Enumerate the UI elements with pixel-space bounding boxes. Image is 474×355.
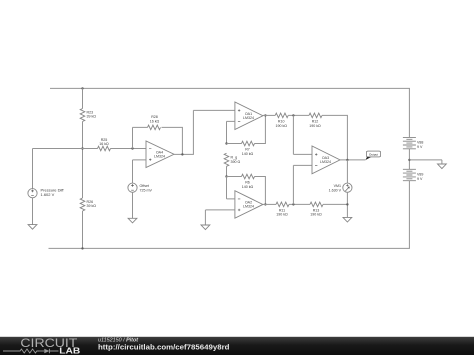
- resistor R13: [310, 202, 323, 217]
- svg-text:16 kΩ: 16 kΩ: [99, 142, 109, 146]
- svg-text:LAB: LAB: [59, 347, 80, 355]
- logo schematic resistor: [3, 349, 39, 353]
- source V Pressure Diff: [28, 187, 65, 197]
- wire R7 left lead: [227, 143, 242, 145]
- node feedback tap: [131, 147, 133, 149]
- resistor R26: [80, 198, 96, 211]
- wire R12 to output column: [322, 115, 348, 159]
- wire OA2 plus to ground: [205, 210, 235, 225]
- wire Rg lower leg: [226, 166, 228, 176]
- resistor R25: [98, 138, 111, 151]
- node B: [292, 203, 294, 205]
- svg-text:1.602 V: 1.602 V: [41, 192, 55, 197]
- ground right: [438, 164, 447, 169]
- source V Offset: [128, 183, 153, 192]
- wire right side upper: [408, 88, 410, 137]
- wire right side lower: [408, 181, 410, 249]
- wire R7 right leg up: [255, 115, 266, 143]
- svg-text:LM324: LM324: [243, 205, 254, 209]
- svg-text:1.630 V: 1.630 V: [329, 189, 342, 193]
- svg-text:39 kΩ: 39 kΩ: [87, 115, 97, 119]
- resistor R28: [148, 115, 161, 130]
- voltmeter VM1: [329, 183, 352, 192]
- wire left chain middle: [82, 122, 84, 199]
- wire OA2 minus up: [227, 177, 235, 199]
- svg-text:LM324: LM324: [320, 160, 331, 164]
- ground pressure: [28, 225, 37, 230]
- wire R11-R13: [289, 203, 310, 205]
- node mid-battery junction: [408, 159, 410, 161]
- svg-text:http://circuitlab.com/cef78564: http://circuitlab.com/cef785649y8rd: [98, 343, 230, 352]
- node R6 left: [225, 175, 227, 177]
- wire offset to ground: [132, 192, 134, 218]
- resistor R12: [309, 113, 322, 128]
- wire OA3 output: [340, 159, 366, 161]
- wire R6 left lead: [227, 176, 242, 178]
- resistor R11: [276, 202, 289, 217]
- footer url text: [98, 343, 230, 352]
- wire node B to OA3 minus: [293, 165, 312, 204]
- op-amp OA3: [312, 146, 340, 174]
- footer title text: [98, 337, 138, 343]
- wire battery mid stub: [408, 149, 410, 170]
- battery V88: [403, 137, 424, 149]
- svg-text:725 mV: 725 mV: [140, 189, 153, 193]
- wire left chain lower: [82, 211, 84, 248]
- svg-text:140 kΩ: 140 kΩ: [242, 185, 254, 189]
- wire R6 right leg down: [255, 177, 266, 205]
- wire node A to OA3 plus: [293, 115, 312, 154]
- svg-text:9 V: 9 V: [417, 145, 423, 149]
- ground VM: [343, 217, 352, 222]
- svg-text:140 kΩ: 140 kΩ: [242, 152, 254, 156]
- resistor R7: [242, 141, 255, 156]
- node left chain mid: [81, 147, 83, 149]
- wire output to voltmeter: [346, 160, 348, 183]
- footer bar: [0, 337, 474, 355]
- ground OA2 plus: [201, 225, 210, 230]
- wire OA2 out lead: [263, 203, 276, 205]
- wire OA1 minus loop: [227, 121, 235, 143]
- battery V89: [403, 169, 424, 181]
- wire R13 to VM column: [323, 203, 348, 205]
- wire pressure to ground: [32, 198, 34, 225]
- svg-text:39 kΩ: 39 kΩ: [87, 204, 97, 208]
- wire OA4 output: [174, 110, 235, 154]
- svg-text:LM324: LM324: [243, 116, 254, 120]
- wire input row: [83, 148, 98, 150]
- node R7 left: [225, 142, 227, 144]
- node OA1 output: [264, 114, 266, 116]
- wire feedback left leg: [133, 127, 148, 148]
- resistor R10: [275, 113, 288, 128]
- node OA4 out / feedback: [181, 153, 183, 155]
- node bottom rail / left chain: [81, 247, 83, 249]
- svg-text:190 kΩ: 190 kΩ: [276, 213, 288, 217]
- wire R25 to opamp: [111, 148, 147, 150]
- svg-text:9 V: 9 V: [417, 177, 423, 181]
- op-amp OA1: [235, 102, 263, 130]
- wire pressure source branch: [33, 149, 83, 189]
- logo LAB text: [59, 347, 80, 355]
- node output: [346, 159, 348, 161]
- wire R10-R12: [288, 114, 309, 116]
- resistor R23: [80, 109, 96, 122]
- svg-text:190 kΩ: 190 kΩ: [309, 124, 321, 128]
- node A: [292, 114, 294, 116]
- node OA2 output: [264, 203, 266, 205]
- svg-text:190 kΩ: 190 kΩ: [310, 213, 322, 217]
- wire left chain upper: [82, 88, 84, 108]
- resistor R6: [242, 174, 255, 189]
- op-amp OA2: [235, 191, 263, 219]
- wire offset branch: [133, 160, 147, 183]
- flag Output: [366, 151, 381, 160]
- ground offset: [128, 218, 137, 223]
- node top rail / left chain: [81, 87, 83, 89]
- wire top rail: [50, 87, 410, 89]
- svg-text:16 kΩ: 16 kΩ: [150, 119, 160, 123]
- wire OA1 out lead: [263, 114, 275, 116]
- node R13 / VM: [346, 203, 348, 205]
- svg-text:390 Ω: 390 Ω: [231, 160, 241, 164]
- logo CIRCUIT text: [20, 338, 77, 350]
- svg-text:LM324: LM324: [154, 154, 165, 158]
- wire bottom rail: [49, 247, 410, 249]
- logo schematic diode: [39, 349, 59, 354]
- svg-text:Output: Output: [369, 152, 378, 156]
- resistor R_g: [224, 153, 240, 166]
- svg-text:190 kΩ: 190 kΩ: [275, 124, 287, 128]
- wire voltmeter to ground: [346, 192, 348, 217]
- wire to right ground: [409, 160, 442, 164]
- wire feedback right leg: [162, 127, 183, 154]
- op-amp OA4: [146, 141, 174, 168]
